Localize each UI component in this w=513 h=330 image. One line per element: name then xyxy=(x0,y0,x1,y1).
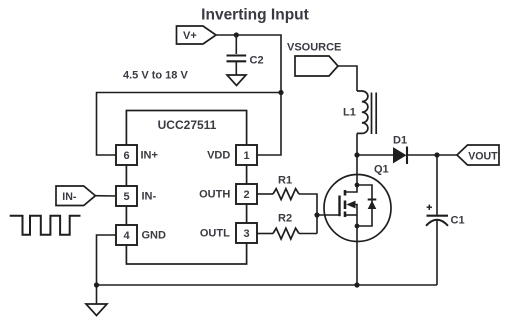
wire gate xyxy=(317,214,340,216)
pin 3 box xyxy=(236,223,257,243)
wire IN- tag to pin 5 xyxy=(95,195,116,197)
tag V+ xyxy=(177,26,217,44)
svg-text:C1: C1 xyxy=(451,215,465,227)
junction source on bus xyxy=(354,282,359,287)
svg-text:C2: C2 xyxy=(250,55,264,67)
wire switch node to D1 xyxy=(357,154,394,156)
junction switch node xyxy=(354,152,359,157)
drain stub xyxy=(345,185,357,192)
arrow to source stub xyxy=(356,205,358,227)
wire pin 4 to ground bus xyxy=(97,235,117,285)
tag VSOURCE xyxy=(295,56,338,76)
wire IN+ feedback loop xyxy=(97,93,282,156)
wire L1 to switch node xyxy=(356,133,358,155)
wire R2 to gate node xyxy=(299,233,317,235)
channel segment top xyxy=(344,190,347,196)
svg-text:VSOURCE: VSOURCE xyxy=(287,42,341,54)
source junction dot xyxy=(355,224,360,229)
square wave input symbol xyxy=(10,216,81,235)
wire V+ rail to VDD xyxy=(216,35,281,155)
channel segment middle xyxy=(344,201,347,210)
junction gate tap xyxy=(314,212,319,217)
svg-text:VDD: VDD xyxy=(207,150,230,162)
svg-text:R2: R2 xyxy=(278,213,292,225)
inductor L1 coil xyxy=(357,91,368,133)
wire VSOURCE to L1 xyxy=(338,66,357,91)
capacitor C2 xyxy=(227,56,247,62)
svg-text:D1: D1 xyxy=(393,135,407,147)
resistor R1 xyxy=(273,189,299,200)
wire VOUT node to C1 xyxy=(436,155,438,215)
svg-text:6: 6 xyxy=(123,150,129,162)
tag VOUT xyxy=(457,145,499,165)
diode D1 xyxy=(394,147,408,165)
channel segment bottom xyxy=(344,212,347,218)
svg-text:R1: R1 xyxy=(278,175,292,187)
svg-text:OUTL: OUTL xyxy=(200,228,230,240)
wire C1 to ground bus xyxy=(436,220,438,285)
gate bar xyxy=(338,196,340,217)
svg-text:L1: L1 xyxy=(343,107,356,119)
junction VOUT tap xyxy=(434,152,439,157)
svg-text:Inverting Input: Inverting Input xyxy=(201,7,309,24)
wire source to ground bus xyxy=(356,226,358,285)
svg-text:UCC27511: UCC27511 xyxy=(158,118,217,132)
svg-text:IN-: IN- xyxy=(62,191,77,203)
pin 6 box xyxy=(116,145,137,165)
junction C2 tap xyxy=(234,32,239,37)
wire C2 top lead xyxy=(235,35,237,54)
transistor Q1 (N-MOSFET) xyxy=(324,175,391,242)
wire D1 to VOUT node xyxy=(407,154,457,156)
resistor R2 xyxy=(273,228,299,239)
junction ground left xyxy=(94,282,99,287)
wire pin 2 to R1 xyxy=(257,193,273,195)
wire pin 3 to R2 xyxy=(257,233,273,235)
inductor L1 core lines xyxy=(372,93,377,135)
tag IN- xyxy=(56,186,95,206)
ground bus wire xyxy=(97,284,438,286)
svg-text:VOUT: VOUT xyxy=(468,150,498,162)
body diode cathode bar xyxy=(368,199,377,201)
pin 5 box xyxy=(116,186,137,206)
ground symbol (main) xyxy=(86,304,107,316)
svg-text:IN+: IN+ xyxy=(141,150,158,162)
pin 4 box xyxy=(116,225,137,245)
IC body U1 UCC27511 xyxy=(126,111,246,265)
svg-text:5: 5 xyxy=(123,191,129,203)
svg-text:V+: V+ xyxy=(183,30,197,42)
body arrow xyxy=(346,201,355,209)
svg-text:3: 3 xyxy=(243,228,249,240)
pin 1 box xyxy=(236,145,257,165)
svg-text:2: 2 xyxy=(243,189,249,201)
body diode branch xyxy=(357,185,372,226)
svg-text:IN-: IN- xyxy=(142,191,157,203)
wire C2 bottom lead xyxy=(235,61,237,75)
capacitor C1 plus sign xyxy=(427,205,432,211)
ground symbol (C2) xyxy=(227,75,246,86)
pin 2 box xyxy=(236,184,257,204)
junction IN+ on V+ rail xyxy=(278,90,283,95)
svg-text:OUTH: OUTH xyxy=(199,189,230,201)
wire R1 to gate node xyxy=(299,194,317,234)
body diode triangle xyxy=(368,201,377,210)
source stub xyxy=(345,214,357,216)
svg-text:Q1: Q1 xyxy=(374,164,389,176)
svg-text:4.5 V to 18 V: 4.5 V to 18 V xyxy=(123,70,188,82)
wire drain from switch node xyxy=(356,155,358,185)
svg-text:GND: GND xyxy=(142,230,167,242)
svg-text:1: 1 xyxy=(243,150,249,162)
wire to main ground symbol xyxy=(96,285,98,304)
drain junction dot xyxy=(355,183,360,188)
capacitor C1 xyxy=(426,216,448,226)
svg-text:4: 4 xyxy=(123,230,130,242)
